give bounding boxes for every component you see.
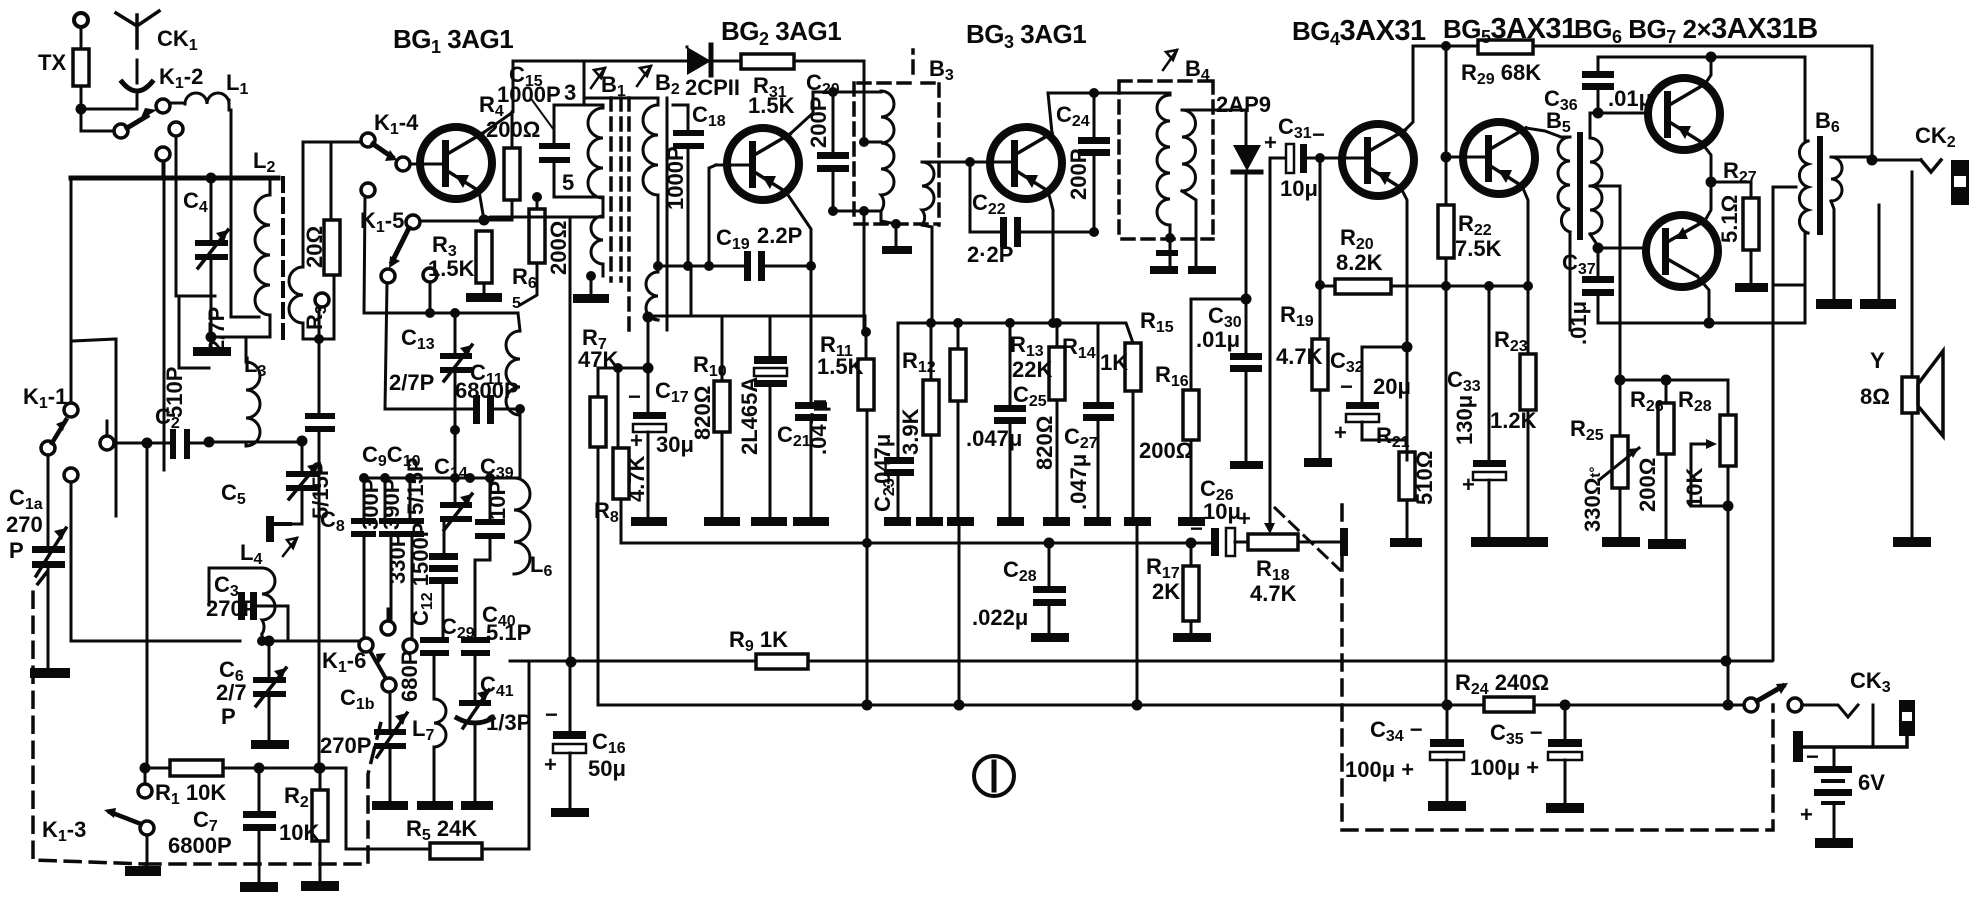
transistor BG7: [1646, 215, 1718, 287]
svg-text:BG3 3AG1: BG3 3AG1: [966, 19, 1086, 52]
antenna CK1: [116, 11, 198, 54]
wire to K1-4: [303, 141, 362, 144]
capacitor C29: [441, 614, 475, 642]
wire BG5 collector: [1526, 128, 1561, 137]
ground B4 primary: [1150, 233, 1178, 274]
svg-text:+: +: [1462, 472, 1475, 497]
capacitor C33 130u: [1447, 286, 1511, 547]
node base: [1315, 153, 1325, 163]
resistor R12 3.9K: [898, 323, 943, 526]
svg-text:50μ: 50μ: [588, 756, 626, 781]
svg-text:820Ω: 820Ω: [1032, 416, 1057, 470]
svg-text:R9 1K: R9 1K: [729, 627, 788, 655]
wire supply drop CK2: [1871, 46, 1874, 160]
coil L2 secondary: [289, 142, 334, 344]
svg-text:+: +: [544, 752, 557, 777]
capacitor C19 2.2P: [716, 223, 811, 281]
switch K1-2: [114, 64, 203, 138]
wire B6 primary feed: [1804, 57, 1807, 141]
node: [1402, 342, 1413, 353]
resistor R1 10K: [155, 760, 346, 808]
label B4: [1163, 50, 1210, 84]
core L2 dashed: [281, 178, 285, 345]
node: [1315, 280, 1325, 290]
svg-text:1.2K: 1.2K: [1490, 408, 1537, 433]
svg-text:10μ: 10μ: [1203, 499, 1241, 524]
wire collector BG1: [483, 61, 513, 133]
capacitor C34 100u: [1345, 705, 1466, 811]
capacitor 680P with L7: [397, 637, 449, 702]
node: [653, 261, 663, 271]
transformer B4 secondary: [1182, 110, 1246, 266]
svg-text:.022μ: .022μ: [972, 605, 1028, 630]
svg-text:6800P: 6800P: [168, 833, 232, 858]
transformer L2 primary: [253, 148, 275, 337]
speaker Y 8ohm: [1860, 348, 1943, 547]
wire volume row y542: [622, 542, 1211, 545]
node: [1048, 318, 1058, 328]
capacitor C10 390P: [379, 478, 404, 623]
node emitter BG1: [479, 215, 490, 226]
svg-text:130μ: 130μ: [1452, 395, 1477, 445]
capacitor C17 30u electrolytic: [628, 368, 694, 526]
dashed link volume: [1275, 508, 1340, 570]
node: [862, 700, 873, 711]
svg-text:200Ω: 200Ω: [1139, 438, 1193, 463]
node: [828, 206, 838, 216]
resistor R10 820ohm: [690, 316, 740, 526]
node R6 top: [532, 192, 542, 202]
svg-text:1.5K: 1.5K: [428, 256, 475, 281]
wire bold antenna bus: [71, 176, 278, 181]
svg-text:510P: 510P: [162, 367, 187, 418]
node: [862, 538, 872, 548]
svg-text:.047μ: .047μ: [966, 426, 1022, 451]
transistor BG2: [716, 128, 799, 200]
wire R31 to B3: [863, 61, 866, 142]
wire osc top rail: [364, 312, 518, 315]
transformer B2 winding: [584, 98, 658, 320]
node B2 sec bottom: [643, 312, 654, 323]
resistor R4 200ohm: [479, 92, 540, 220]
ground C6: [251, 740, 289, 749]
resistor R16 200ohm: [1139, 301, 1205, 526]
transformer B6 secondary: [1831, 157, 1872, 299]
svg-text:R5 24K: R5 24K: [406, 816, 477, 844]
wire BG6 collector: [1705, 57, 1711, 84]
wire y323 collector bus: [1598, 322, 1805, 325]
wire BG2 emitter: [786, 192, 811, 266]
svg-text:.01μ: .01μ: [1566, 301, 1591, 345]
resistor R31 1.5K: [741, 54, 864, 118]
transistor BG4: [1325, 124, 1414, 196]
core B1 dashed: [611, 98, 621, 281]
node: [1186, 538, 1197, 549]
thermistor R25 330ohm: [1570, 380, 1640, 547]
svg-text:4.7K: 4.7K: [624, 455, 649, 502]
wire C18 node drop: [690, 266, 693, 316]
node: [380, 473, 390, 483]
node: [485, 473, 495, 483]
node: [450, 473, 460, 483]
coil L6: [514, 478, 552, 580]
node: [1615, 375, 1626, 386]
wire to R27: [1711, 182, 1751, 198]
wire bus y662: [510, 661, 1772, 849]
svg-text:+: +: [1334, 420, 1347, 445]
capacitor C4 variable 2/7P: [183, 178, 229, 352]
resistor R22 7.5K: [1438, 205, 1502, 286]
capacitor C25 .047u: [966, 323, 1047, 526]
svg-text:3: 3: [564, 80, 576, 105]
svg-text:1/3P: 1/3P: [486, 710, 531, 735]
transformer B3 primary: [864, 91, 896, 224]
core B2 dashed: [627, 98, 631, 330]
wire: [211, 336, 270, 339]
node C4 top: [206, 173, 217, 184]
svg-text:680P: 680P: [397, 651, 422, 702]
svg-text:.047μ: .047μ: [806, 399, 831, 455]
capacitor C8: [305, 293, 345, 768]
node: [1484, 281, 1494, 291]
ground B6 secondary: [1816, 299, 1852, 309]
terminal post L2 tap: [169, 122, 215, 368]
capacitor C16 50u electrolytic: [544, 702, 626, 817]
node: [264, 636, 275, 647]
svg-text:+: +: [1238, 506, 1251, 531]
capacitor C15 1000P: [497, 62, 603, 197]
core B5: [1577, 135, 1583, 237]
resistor R3 1.5K: [428, 231, 502, 302]
resistor R20 8.2K: [1320, 225, 1446, 294]
wire supply drop right: [1772, 285, 1775, 660]
svg-text:100μ +: 100μ +: [1345, 757, 1414, 782]
wire B1 secondary to emitter: [484, 217, 603, 220]
svg-text:10μ: 10μ: [1280, 176, 1318, 201]
resistor R13 22K: [947, 323, 1052, 526]
capacitor C22 2.2P: [967, 162, 1094, 267]
wire L1 down: [231, 110, 259, 317]
svg-text:P: P: [9, 538, 24, 563]
node C4 bottom: [206, 332, 217, 343]
node: [926, 318, 936, 328]
wire CK2 sleeve: [1878, 205, 1881, 299]
antenna socket: [122, 60, 152, 109]
resistor R24 240ohm: [1455, 670, 1549, 712]
wire R5 feed: [346, 768, 430, 849]
wire BG2 base: [709, 165, 716, 266]
svg-text:Y: Y: [1870, 348, 1885, 373]
wire C19 row: [658, 265, 744, 268]
transformer B6 primary: [1773, 141, 1808, 323]
node: [1721, 656, 1732, 667]
capacitor C35 100u: [1470, 705, 1584, 813]
resistor R19 4.7K: [1276, 302, 1332, 467]
wire y57: [1598, 56, 1805, 59]
svg-text:270P: 270P: [206, 596, 257, 621]
svg-text:2/7P: 2/7P: [389, 370, 434, 395]
svg-text:10P: 10P: [485, 481, 510, 520]
node: [828, 87, 838, 97]
wire B1 to C16: [569, 217, 572, 731]
figure mark 1: [974, 756, 1014, 796]
wire K1-1 branch: [72, 339, 116, 516]
wire supply top y46: [1413, 45, 1478, 48]
node C5: [297, 436, 308, 447]
wire left drop: [70, 178, 73, 403]
node C7: [254, 763, 265, 774]
filter 2L465A: [737, 316, 787, 526]
node: [1442, 700, 1453, 711]
coil L1: [170, 70, 248, 110]
capacitor C40 5.1P: [461, 560, 531, 700]
svg-text:7.5K: 7.5K: [1455, 236, 1502, 261]
node: [450, 425, 460, 435]
ground B4 secondary: [1188, 266, 1216, 274]
wire speaker: [1911, 172, 1914, 377]
svg-text:5.1Ω: 5.1Ω: [1717, 195, 1742, 243]
can B4 dashed: [1119, 81, 1213, 240]
capacitor C12 1500P: [385, 523, 458, 637]
svg-text:2L465A: 2L465A: [737, 377, 762, 455]
capacitor C31 10u electrolytic: [1264, 114, 1325, 201]
capacitor C13 variable 2/7P: [389, 313, 472, 430]
svg-text:2AP9: 2AP9: [1216, 92, 1271, 117]
wire to K1-6: [262, 640, 364, 643]
transformer B5 secondary: [1590, 113, 1620, 246]
resistor R15 1K: [1100, 308, 1174, 526]
capacitor C41 1/3P: [457, 672, 531, 801]
transformer B1 winding: [554, 61, 603, 276]
svg-text:−: −: [1312, 122, 1325, 147]
resistor TX: [38, 27, 89, 109]
wire R20 to R22 row: [1391, 285, 1446, 288]
wire supply column down: [1445, 286, 1448, 705]
wire B6 tap supply: [1773, 187, 1805, 285]
wire C2 to K1-3 drop: [146, 443, 149, 768]
wire K1-6 top: [387, 609, 390, 621]
diode 2AP9: [1216, 92, 1271, 299]
svg-text:200Ω: 200Ω: [486, 117, 540, 142]
capacitor C32 20u electrolytic: [1330, 347, 1411, 445]
wire: [209, 441, 302, 444]
svg-text:6V: 6V: [1858, 770, 1885, 795]
node emitters: [1706, 177, 1717, 188]
node: [1560, 700, 1571, 711]
capacitor C36 .01u: [1544, 57, 1652, 114]
svg-text:20μ: 20μ: [1373, 374, 1411, 399]
svg-text:2.2P: 2.2P: [757, 223, 802, 248]
svg-text:10K: 10K: [279, 820, 319, 845]
wire R28 down: [1727, 506, 1730, 705]
node C8 bottom: [314, 763, 325, 774]
svg-text:330P: 330P: [385, 533, 410, 584]
svg-text:−: −: [1190, 516, 1203, 541]
ground C4: [193, 337, 231, 356]
wire B3 sec to BG3 base: [932, 161, 1011, 164]
resistor R23 1.2K: [1490, 286, 1548, 547]
svg-text:BG43AX31: BG43AX31: [1292, 15, 1426, 49]
wire BG3 collector: [1048, 93, 1155, 133]
terminal K1-4 spare: [361, 183, 375, 313]
wire C13 to rail: [454, 430, 457, 478]
wire R22 column: [1445, 46, 1448, 205]
wire terminal drop: [163, 161, 166, 470]
resistor R27 5.1ohm: [1717, 158, 1768, 292]
dashed chassis bottom: [145, 714, 383, 864]
node TX junction: [76, 104, 87, 115]
node: [1704, 318, 1715, 329]
node: [953, 318, 963, 328]
node: [965, 157, 975, 167]
capacitor C5 variable 5/15P: [221, 446, 333, 524]
transistor BG1: [410, 127, 492, 199]
wire detector: [1191, 298, 1246, 301]
switch K1-6: [322, 621, 396, 692]
node: [1089, 88, 1099, 98]
capacitor C30 .01u: [1196, 299, 1263, 469]
wire osc mid rail: [364, 477, 520, 480]
capacitor C20 200P: [806, 70, 849, 211]
wire K1-1 tap: [64, 468, 240, 641]
svg-text:−: −: [628, 384, 641, 409]
resistor R29 68K: [1461, 40, 1872, 88]
wire AGC node row: [898, 323, 1133, 343]
resistor R6 200ohm: [512, 195, 571, 305]
svg-text:R29 68K: R29 68K: [1461, 60, 1541, 88]
node: [450, 308, 460, 318]
node tap B3: [859, 137, 869, 147]
svg-text:5: 5: [512, 295, 521, 312]
svg-text:C12 1500P: C12 1500P: [408, 523, 436, 626]
wire BG4 collector top: [1405, 46, 1413, 130]
resistor R14 820ohm: [1032, 323, 1096, 526]
wire band bus: [114, 442, 170, 445]
svg-text:270P: 270P: [320, 733, 371, 758]
resistor R8 4.7K: [594, 363, 654, 544]
capacitor C1b variable 270P: [320, 685, 408, 810]
resistor R5 24K: [406, 816, 526, 859]
dashed box output: [1342, 505, 1773, 830]
svg-text:R1 10K: R1 10K: [155, 780, 226, 808]
capacitor C28 .022u: [972, 543, 1069, 642]
svg-text:BG6 BG7 2×3AX31B: BG6 BG7 2×3AX31B: [1574, 13, 1818, 47]
wire base bias: [1319, 158, 1322, 339]
battery 6V: [1800, 744, 1885, 848]
core B6: [1817, 139, 1823, 232]
transistor BG3: [990, 127, 1062, 199]
potentiometer R18 4.7K: [1248, 505, 1342, 606]
svg-text:+: +: [1800, 802, 1813, 827]
svg-text:BG1 3AG1: BG1 3AG1: [393, 24, 513, 57]
wire BG6 base: [1598, 112, 1647, 115]
dashed chassis left: [33, 572, 145, 864]
ground C5: [266, 516, 302, 542]
node R28 bottom: [1723, 501, 1734, 512]
wire: [145, 768, 170, 784]
wire BG7 emitter up: [1703, 182, 1711, 224]
resistor R9 1K: [729, 627, 808, 669]
capacitor C39 10P: [475, 454, 514, 560]
svg-text:−: −: [1340, 374, 1353, 399]
resistor R11 1.5K: [817, 332, 874, 705]
node: [1723, 700, 1734, 711]
resistor R2 10K: [279, 768, 339, 891]
wire: [81, 108, 137, 111]
svg-text:5.1P: 5.1P: [486, 620, 531, 645]
svg-text:+: +: [1264, 130, 1277, 155]
node: [1523, 281, 1533, 291]
svg-text:5/15P: 5/15P: [403, 458, 428, 516]
ground osc A: [417, 801, 453, 810]
ground CK2: [1860, 299, 1896, 309]
capacitor C26 10u electrolytic: [1190, 476, 1251, 556]
svg-text:1000P: 1000P: [663, 146, 688, 210]
terminal post C2 line: [100, 421, 114, 450]
wire C20 bottom to B3: [833, 210, 881, 213]
svg-text:TX: TX: [38, 50, 66, 75]
capacitor C37 .01u: [1562, 248, 1614, 345]
svg-text:P: P: [221, 704, 236, 729]
node C37 top: [1593, 243, 1604, 254]
switch CK3: [1744, 668, 1891, 712]
label B2: [637, 66, 680, 98]
wire BG7 base: [1598, 247, 1646, 250]
node R1 wire: [140, 763, 151, 774]
resistor R26 200ohm: [1630, 380, 1686, 549]
node CK2: [1867, 155, 1878, 166]
capacitor C23 .047u: [870, 323, 914, 526]
resistor R7 47K: [578, 325, 648, 702]
capacitor C3 270P: [206, 572, 288, 641]
capacitor C14 5/15P: [403, 454, 472, 553]
svg-text:270: 270: [6, 512, 43, 537]
svg-text:5: 5: [562, 170, 574, 195]
node emitter C19: [806, 261, 816, 271]
node: [566, 657, 577, 668]
switch K1-4: [361, 110, 419, 171]
svg-text:6800P: 6800P: [455, 378, 519, 403]
capacitor C7 6800P: [168, 768, 278, 892]
wire B2 right: [666, 98, 669, 330]
resistor R21 510ohm: [1376, 423, 1437, 547]
node L4: [257, 636, 267, 646]
svg-text:2K: 2K: [1152, 579, 1180, 604]
svg-text:1K: 1K: [1100, 350, 1128, 375]
node: [1089, 227, 1099, 237]
svg-text:8Ω: 8Ω: [1860, 384, 1890, 409]
ground B1: [573, 276, 609, 303]
svg-text:2/7: 2/7: [216, 680, 247, 705]
node: [465, 473, 475, 483]
node detector: [1241, 294, 1252, 305]
wire K1-5 drops: [385, 282, 430, 409]
capacitor C18 1000P: [663, 102, 726, 266]
svg-text:200Ω: 200Ω: [1635, 458, 1660, 512]
label B1: [591, 68, 626, 100]
transistor BG5: [1463, 122, 1535, 194]
switch K1-3: [42, 784, 161, 876]
node B1 ground: [586, 271, 596, 281]
svg-text:22K: 22K: [1012, 357, 1052, 382]
node: [142, 438, 153, 449]
svg-text:200P: 200P: [806, 97, 831, 148]
transformer B5 primary: [1558, 137, 1570, 330]
svg-text:2/7P: 2/7P: [204, 307, 229, 352]
node: [704, 261, 714, 271]
ground B3: [882, 219, 912, 254]
node: [204, 437, 215, 448]
